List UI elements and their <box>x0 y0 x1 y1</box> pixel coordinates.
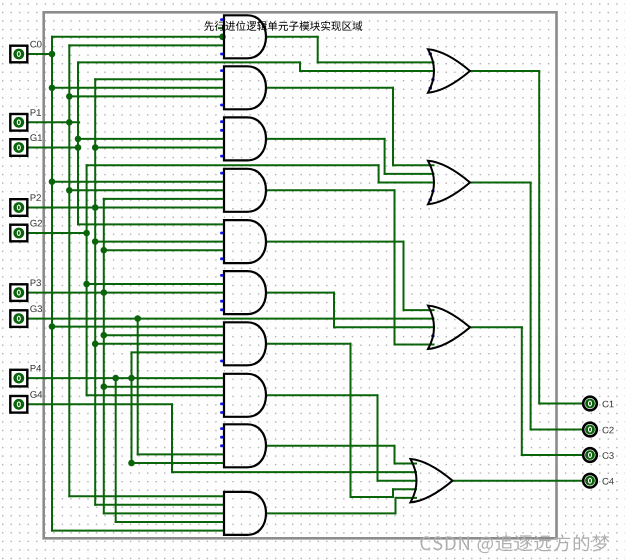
junction net C0 at 52,54 <box>49 51 56 58</box>
unconnected pin marker at 224,301.2 <box>220 300 223 303</box>
junction net P4 at 131.5,463 <box>128 460 135 467</box>
junction net G2 at 86.6,233 <box>83 230 90 237</box>
junction net G1 at 78,138.9 <box>75 136 82 143</box>
unconnected pin marker at 224,173.1 <box>220 172 223 175</box>
unconnected pin marker at 224,309.8 <box>220 308 223 311</box>
OR gate U12 <box>428 161 470 204</box>
wire A9 output <box>266 446 416 464</box>
AND gate A9 <box>224 424 266 467</box>
unconnected pin marker at 224,233 <box>220 232 223 235</box>
junction net C0 at 52,87.8 <box>49 85 56 92</box>
AND gate A3 <box>224 117 266 160</box>
unconnected pin marker at 432.5,53.8 <box>429 52 432 55</box>
title text <box>204 21 362 31</box>
OR gate U14 <box>411 459 453 502</box>
AND gate A6 <box>224 271 266 314</box>
wire A1 input stub <box>219 27 224 29</box>
net P3 <box>28 199 225 514</box>
unconnected pin marker at 432.5,88.2 <box>429 87 432 90</box>
junction net P2 at 95.2,207.5 <box>92 204 99 211</box>
output pin C2 <box>583 423 614 437</box>
input pin G3 <box>10 305 42 327</box>
unconnected pin marker at 435.1,335.9 <box>431 335 434 338</box>
AND gate A2 <box>224 66 266 109</box>
junction net G1 at 95.2,147.5 <box>92 144 99 151</box>
wire C2 net <box>470 183 583 430</box>
net P1 <box>28 45 225 496</box>
AND gate A1 <box>224 15 266 58</box>
unconnected pin marker at 224,445.8 <box>220 444 223 447</box>
wire A1 output <box>266 37 434 63</box>
junction net G2 at 86.6,284 <box>83 281 90 288</box>
unconnected pin marker at 224,275.4 <box>220 274 223 277</box>
input pin P1 <box>10 109 41 130</box>
junction net P3 at 103.8,335.2 <box>101 332 108 339</box>
wire A4 output <box>266 190 434 344</box>
unconnected pin marker at 224,105 <box>220 104 223 107</box>
unconnected pin marker at 224,361 <box>220 360 223 363</box>
wire A10 output <box>266 498 416 514</box>
junction net G3 at 137.7,318.6 <box>134 315 141 322</box>
wire A2 output <box>266 88 434 166</box>
input pin G1 <box>10 134 42 156</box>
wire C1 net <box>470 71 583 404</box>
unconnected pin marker at 435.1,191.1 <box>431 190 434 193</box>
net C0 <box>28 37 225 531</box>
unconnected pin marker at 224,19.6 <box>220 18 223 21</box>
AND gate A4 <box>224 169 266 212</box>
junction net P1 at 69.3,96.4 <box>66 93 73 100</box>
junction net P1 at 69.3,190.3 <box>66 187 73 194</box>
wire A8 output <box>266 395 416 480</box>
junction net P3 at 103.8,250.2 <box>101 247 108 254</box>
input pin P2 <box>10 194 41 216</box>
unconnected pin marker at 224,412.5 <box>220 411 223 414</box>
unconnected pin marker at 432.5,199.7 <box>429 198 432 201</box>
unconnected pin marker at 224,258.8 <box>220 257 223 260</box>
wire A6 output <box>266 293 434 328</box>
input pin P3 <box>10 279 41 301</box>
input pin P4 <box>10 365 41 386</box>
AND gate A8 <box>224 374 266 417</box>
junction net C0 at 222.5,36.8 <box>219 34 226 41</box>
input pin G2 <box>10 220 42 242</box>
AND gate A10 <box>224 492 266 535</box>
unconnected pin marker at 224,130.3 <box>220 129 223 132</box>
output pin C1 <box>583 397 614 411</box>
net G3 <box>28 319 434 455</box>
unconnected pin marker at 224,70.6 <box>220 69 223 72</box>
AND gate A5 <box>224 220 266 263</box>
output pin C4 <box>583 474 614 488</box>
OR gate U11 <box>428 49 470 92</box>
net G1 <box>28 62 434 224</box>
net P2 <box>28 79 225 505</box>
unconnected pin marker at 224,121.7 <box>220 120 223 123</box>
unconnected pin marker at 224,437.2 <box>220 436 223 439</box>
watermark <box>421 534 610 553</box>
unconnected pin marker at 224,428.6 <box>220 427 223 430</box>
net G4 <box>28 404 417 472</box>
net P4 <box>28 352 225 522</box>
input pin G4 <box>10 391 42 413</box>
input pin C0 <box>10 41 41 63</box>
schematic border frame <box>44 12 557 538</box>
junction net G1 at 78,147.5 <box>75 144 82 151</box>
junction net P2 at 95.2,241.6 <box>92 238 99 245</box>
wire C4 net <box>453 480 583 482</box>
junction net P2 at 95.2,343.8 <box>92 341 99 348</box>
wire A5 output <box>266 242 434 311</box>
unconnected pin marker at 224,156.1 <box>220 155 223 158</box>
junction net C0 at 52,181.7 <box>49 178 56 185</box>
junction net P3 at 103.8,292.6 <box>101 289 108 296</box>
junction net P4 at 115.7,378.1 <box>112 375 119 382</box>
unconnected pin marker at 224,403.9 <box>220 403 223 406</box>
junction net C0 at 52,326.6 <box>49 323 56 330</box>
unconnected pin marker at 224,54 <box>220 53 223 56</box>
output pin C3 <box>583 448 614 462</box>
junction net P1 at 69.3,122.3 <box>66 119 73 126</box>
OR gate U13 <box>428 306 470 349</box>
unconnected pin marker at 435.1,79.6 <box>431 78 434 81</box>
junction net P4 at 131.5,378.1 <box>128 375 135 382</box>
wire C3 net <box>470 327 583 455</box>
wire A7 output <box>266 344 416 497</box>
wire A3 output <box>266 139 434 174</box>
net G2 <box>28 165 434 395</box>
junction net P3 at 103.8,386.7 <box>101 383 108 390</box>
AND gate A7 <box>224 322 266 365</box>
